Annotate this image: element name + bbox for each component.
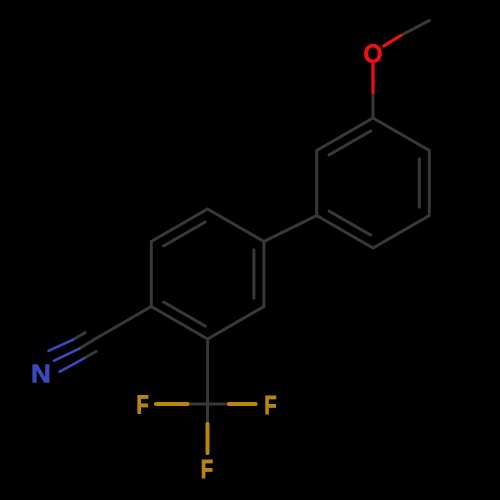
svg-text:F: F xyxy=(136,390,148,419)
svg-text:N: N xyxy=(31,360,51,389)
svg-text:O: O xyxy=(363,40,382,69)
svg-text:F: F xyxy=(264,391,276,420)
svg-text:F: F xyxy=(201,455,213,484)
